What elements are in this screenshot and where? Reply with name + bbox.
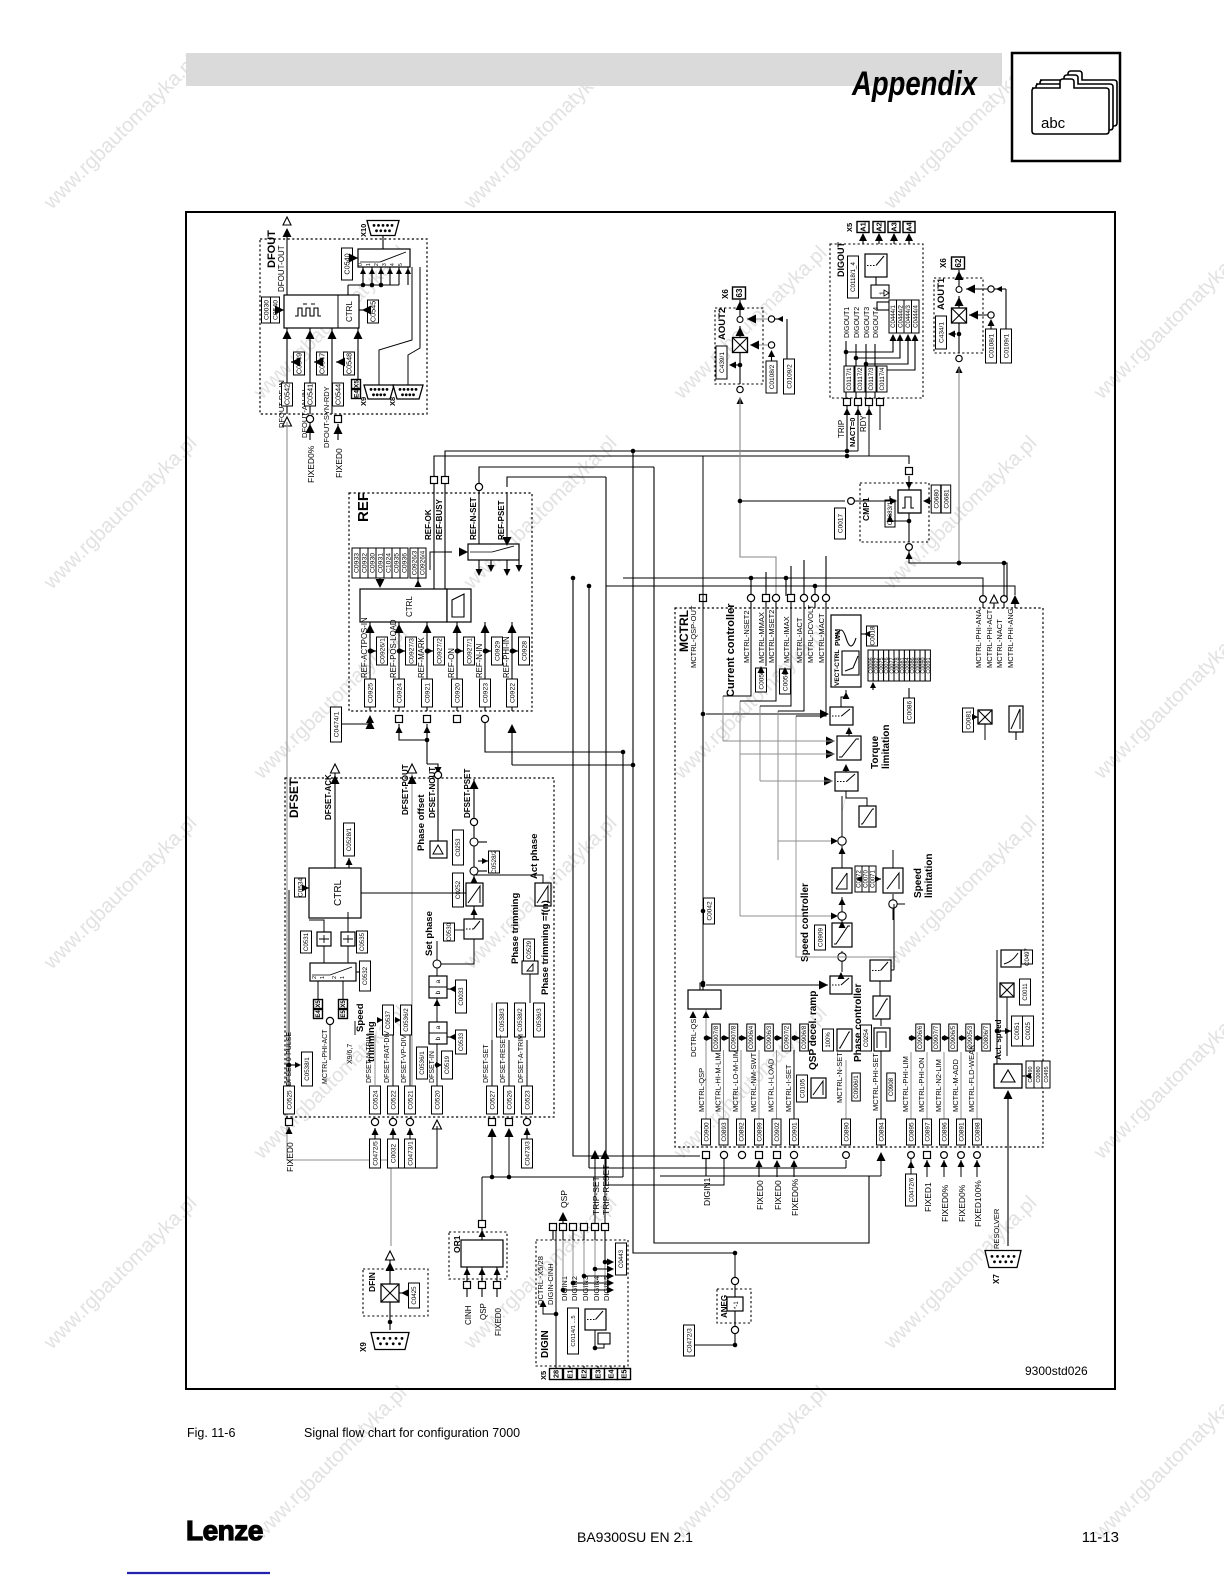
svg-text:C0894: C0894 xyxy=(878,1122,885,1142)
MCTRL act speed triangle xyxy=(994,1061,1050,1088)
svg-text:C0025: C0025 xyxy=(1026,1022,1032,1040)
REF param boxes xyxy=(352,548,426,588)
DFSET mux2 xyxy=(310,961,371,991)
svg-text:63: 63 xyxy=(735,288,744,297)
svg-text:DFSET-RAT-DIV: DFSET-RAT-DIV xyxy=(384,1031,391,1083)
svg-text:C0114/1 ...5: C0114/1 ...5 xyxy=(571,1315,577,1346)
svg-text:MCTRL-QSP-OUT: MCTRL-QSP-OUT xyxy=(689,605,698,668)
svg-text:C0896: C0896 xyxy=(941,1122,948,1142)
label DFSET-VP-DIV xyxy=(401,1034,410,1086)
label TRIP-SET xyxy=(591,1150,602,1223)
svg-text:C0541: C0541 xyxy=(306,384,315,405)
MCTRL limiter3 xyxy=(873,996,890,1026)
svg-text:C0537: C0537 xyxy=(385,1010,392,1029)
svg-text:C0080: C0080 xyxy=(1036,1066,1042,1082)
svg-text:0: 0 xyxy=(358,263,364,266)
svg-text:C0520: C0520 xyxy=(434,1090,441,1110)
svg-text:C0536/1: C0536/1 xyxy=(419,1051,426,1075)
svg-text:C0117/2: C0117/2 xyxy=(857,367,864,390)
svg-text:C0927/2: C0927/2 xyxy=(436,638,443,664)
label Phase controller xyxy=(853,984,864,1062)
svg-text:C0920: C0920 xyxy=(454,683,461,703)
svg-text:MCTRL-N2-LIM: MCTRL-N2-LIM xyxy=(934,1059,943,1112)
svg-text:X9/6,7: X9/6,7 xyxy=(347,1044,354,1064)
svg-text:C0930: C0930 xyxy=(369,553,376,573)
svg-text:CTRL: CTRL xyxy=(333,879,344,906)
footer page number xyxy=(1082,1529,1119,1546)
svg-text:A1: A1 xyxy=(859,222,868,232)
svg-text:MCTRL-PHI-ANG: MCTRL-PHI-ANG xyxy=(1006,608,1015,668)
svg-text:C0680: C0680 xyxy=(933,489,940,509)
MCTRL top stubs xyxy=(749,556,826,596)
svg-text:FIXED0: FIXED0 xyxy=(773,1180,783,1210)
box C0542 xyxy=(282,383,293,406)
box C0528/2 xyxy=(478,850,500,874)
wire REF-PHI-IN feed xyxy=(508,724,636,767)
box C0529 xyxy=(522,939,538,1003)
box C0472/3 xyxy=(684,1325,736,1356)
block REF box xyxy=(349,492,532,711)
REF ramp box xyxy=(447,589,471,622)
svg-text:DFSET-N-TRIM: DFSET-N-TRIM xyxy=(366,1033,373,1083)
svg-text:DFIN: DFIN xyxy=(367,1272,377,1292)
svg-text:C0538/2: C0538/2 xyxy=(517,1008,524,1032)
svg-text:C0536/2: C0536/2 xyxy=(403,1008,410,1032)
svg-text:X5: X5 xyxy=(539,1371,548,1380)
connector X10 xyxy=(359,221,399,238)
svg-text:X10: X10 xyxy=(359,224,368,237)
svg-text:C0906/6: C0906/6 xyxy=(917,1025,924,1049)
svg-text:NACT=0: NACT=0 xyxy=(848,418,857,447)
label MCTRL-QSP-OUT xyxy=(689,456,707,668)
block ANEG xyxy=(717,1251,751,1348)
svg-text:MCTRL-NACT: MCTRL-NACT xyxy=(995,619,1004,668)
wire REF-BUSY xyxy=(435,477,449,590)
svg-text:C0806/7: C0806/7 xyxy=(983,1025,990,1049)
label DFSET-0-PULSE xyxy=(286,890,313,1086)
svg-text:FIXED0%: FIXED0% xyxy=(940,1184,950,1222)
wire AOUT1 down xyxy=(957,368,962,565)
svg-text:C0032: C0032 xyxy=(390,1144,397,1164)
DFSET sum diamonds xyxy=(470,826,487,875)
svg-text:C0901: C0901 xyxy=(791,1122,798,1142)
DFSET CTRL box xyxy=(309,868,361,918)
svg-text:MCTRL-IACT: MCTRL-IACT xyxy=(795,617,804,663)
svg-text:C0033: C0033 xyxy=(458,987,465,1006)
svg-text:DFSET-NOUT: DFSET-NOUT xyxy=(428,767,437,818)
svg-text:C0105: C0105 xyxy=(799,1079,806,1099)
footer blue line xyxy=(127,1572,270,1574)
REF input REF-PHI-IN xyxy=(502,622,530,711)
label RDY xyxy=(859,408,873,432)
wire DFSET-POUT xyxy=(401,764,417,1086)
abc tab icon xyxy=(1012,53,1120,161)
label DFOUT-AN-IN xyxy=(300,352,328,438)
svg-text:DFSET-A-TRIM: DFSET-A-TRIM xyxy=(518,1034,525,1083)
wire REF-PSET xyxy=(497,492,512,546)
svg-text:QSP: QSP xyxy=(559,1190,569,1208)
svg-text:C0927/1: C0927/1 xyxy=(466,638,473,664)
wire X10 to mux xyxy=(382,236,384,249)
block DFIN xyxy=(363,1251,428,1330)
svg-text:C0109/2: C0109/2 xyxy=(786,364,793,389)
label Phase trimming fn xyxy=(540,900,551,995)
box C0536/1 xyxy=(417,1047,428,1079)
svg-text:Lenze: Lenze xyxy=(186,1515,263,1546)
bus line 3 xyxy=(606,477,640,1185)
label MCTRL-I-SET xyxy=(784,1024,808,1148)
svg-text:DFOUT-OUT: DFOUT-OUT xyxy=(277,245,286,292)
svg-text:9300std026: 9300std026 xyxy=(1025,1364,1088,1378)
svg-text:X9: X9 xyxy=(359,397,368,406)
svg-text:BA9300SU EN 2.1: BA9300SU EN 2.1 xyxy=(577,1529,693,1545)
svg-text:C0528/2: C0528/2 xyxy=(491,850,498,874)
svg-text:REF-PSET: REF-PSET xyxy=(497,500,506,540)
label MCTRL-PHI-SET xyxy=(871,1053,895,1148)
svg-text:C0681: C0681 xyxy=(943,489,950,509)
svg-text:C0923: C0923 xyxy=(482,683,489,703)
DFSET x5 terms xyxy=(314,981,348,1019)
svg-text:C0899: C0899 xyxy=(756,1122,763,1142)
DFSET bottom terminals xyxy=(286,1118,531,1129)
svg-text:DFSET-POUT: DFSET-POUT xyxy=(401,764,410,815)
wire dfout long left xyxy=(287,422,391,1246)
svg-text:C0472/6: C0472/6 xyxy=(908,1177,915,1202)
MCTRL param column xyxy=(868,650,932,690)
svg-text:MCTRL-PHI-ACT: MCTRL-PHI-ACT xyxy=(322,1029,329,1084)
svg-text:C0542: C0542 xyxy=(283,384,292,405)
svg-text:C0909: C0909 xyxy=(817,928,824,948)
label DFSET-A-TRIM xyxy=(518,1003,545,1086)
MCTRL top signals xyxy=(742,594,830,663)
svg-text:C0928: C0928 xyxy=(521,641,528,661)
box C0537 xyxy=(377,1005,394,1035)
svg-text:Set phase: Set phase xyxy=(424,911,435,956)
DFOUT bottom terminals xyxy=(283,415,342,426)
MCTRL switch2 xyxy=(760,764,858,791)
svg-text:Speed: Speed xyxy=(355,1003,366,1032)
label Act speed xyxy=(994,950,1003,1064)
svg-text:FIXED0: FIXED0 xyxy=(494,1307,503,1336)
svg-text:QSP decel. ramp: QSP decel. ramp xyxy=(808,991,819,1070)
box C0081b xyxy=(963,708,974,732)
svg-text:5: 5 xyxy=(398,263,404,266)
svg-text:C0892: C0892 xyxy=(738,1122,745,1142)
svg-text:MCTRL-PHI-LIM: MCTRL-PHI-LIM xyxy=(901,1056,910,1112)
label MCTRL-HI-M-LIM xyxy=(714,1024,738,1148)
MCTRL bottom signals right xyxy=(901,1024,990,1148)
svg-text:MCTRL-PHI-ANA: MCTRL-PHI-ANA xyxy=(974,609,983,668)
svg-text:FIXED0: FIXED0 xyxy=(285,1142,295,1172)
bus line 4 xyxy=(621,750,626,1177)
svg-text:X5: X5 xyxy=(341,1000,347,1008)
REF lower junctions xyxy=(396,724,442,774)
DFSET actphase ramp xyxy=(474,875,551,906)
connector X7 resolver xyxy=(985,1251,1021,1285)
svg-text:1: 1 xyxy=(340,976,346,979)
svg-text:C0932: C0932 xyxy=(361,553,368,573)
svg-text:C0927/3: C0927/3 xyxy=(408,638,415,664)
svg-text:C0891: C0891 xyxy=(958,1122,965,1142)
svg-text:QSP: QSP xyxy=(479,1303,488,1320)
svg-text:C0254: C0254 xyxy=(863,1028,870,1047)
MCTRL sum2 xyxy=(889,894,905,920)
svg-text:11-13: 11-13 xyxy=(1082,1529,1119,1546)
box C0472/5 xyxy=(370,1128,381,1168)
svg-text:C0472/3: C0472/3 xyxy=(686,1328,693,1353)
svg-text:a: a xyxy=(435,979,442,983)
MCTRL monitor cross xyxy=(1000,979,1031,1056)
svg-text:C1024: C1024 xyxy=(385,553,392,573)
svg-text:DFSET-RESET: DFSET-RESET xyxy=(500,1034,507,1083)
svg-text:REF-PHI-IN: REF-PHI-IN xyxy=(502,636,511,678)
svg-text:C0118/1_4: C0118/1_4 xyxy=(850,262,857,292)
DFOUT input wires xyxy=(283,328,363,414)
block AOUT2 xyxy=(715,287,795,404)
MCTRL ramp right xyxy=(883,850,903,893)
svg-text:C0907/8: C0907/8 xyxy=(713,1025,720,1049)
svg-text:RDY: RDY xyxy=(859,414,868,432)
DFSET divbox1 xyxy=(429,976,467,1013)
svg-text:C0532: C0532 xyxy=(362,966,369,985)
svg-text:MCTRL-HI-M-LIM: MCTRL-HI-M-LIM xyxy=(714,1052,723,1112)
svg-text:DFSET-SET: DFSET-SET xyxy=(483,1044,490,1083)
svg-text:MCTRL-FLD-WEAK: MCTRL-FLD-WEAK xyxy=(967,1045,976,1112)
svg-text:VECT-CTRL: VECT-CTRL xyxy=(834,650,841,687)
svg-text:MCTRL-M-ADD: MCTRL-M-ADD xyxy=(951,1059,960,1112)
svg-text:CTRL: CTRL xyxy=(405,596,414,617)
MCTRL sum1 xyxy=(778,796,846,860)
REF CTRL box xyxy=(360,589,447,622)
label NACT=0 xyxy=(848,408,862,447)
MCTRL sum3 xyxy=(740,897,846,920)
connector X9 dfin xyxy=(359,1333,409,1353)
svg-text:C0086: C0086 xyxy=(906,701,913,721)
drawing number xyxy=(1025,1364,1088,1378)
box 100pct xyxy=(823,1029,834,1051)
connector X9 dfout xyxy=(359,267,412,406)
svg-text:DIGIN4: DIGIN4 xyxy=(592,1276,601,1301)
svg-text:C0926/1: C0926/1 xyxy=(379,638,386,664)
MCTRL right outputs xyxy=(974,595,1020,668)
box C0909 xyxy=(815,925,826,950)
svg-text:4: 4 xyxy=(390,263,396,266)
svg-text:E3: E3 xyxy=(594,1369,603,1378)
svg-text:CTRL: CTRL xyxy=(345,301,354,322)
block DFSET box xyxy=(285,778,554,1117)
MCTRL switch3 xyxy=(701,972,852,994)
svg-text:1: 1 xyxy=(366,263,372,266)
svg-text:C0544: C0544 xyxy=(334,384,343,405)
svg-text:Fig. 11-6: Fig. 11-6 xyxy=(187,1426,235,1440)
DFSET plusboxes xyxy=(301,912,368,963)
svg-text:C0902: C0902 xyxy=(774,1122,781,1142)
svg-text:C0907/8: C0907/8 xyxy=(731,1025,738,1049)
DFOUT-OUT wire xyxy=(277,217,292,295)
label Phase trimming xyxy=(510,893,521,964)
svg-text:MCTRL-MMAX: MCTRL-MMAX xyxy=(757,612,766,663)
svg-text:C0538/1: C0538/1 xyxy=(304,1057,311,1081)
svg-text:TRIP: TRIP xyxy=(837,420,846,438)
MCTRL pi1 xyxy=(832,846,852,893)
wire DFSET-ACK xyxy=(324,764,340,868)
svg-text:1: 1 xyxy=(879,291,886,295)
box C0018 xyxy=(861,626,878,646)
box C0536/2 xyxy=(395,1005,412,1035)
svg-text:REF-MARK: REF-MARK xyxy=(417,636,426,678)
label DFOUT-DF-IN xyxy=(277,352,305,428)
svg-text:C0108/2: C0108/2 xyxy=(769,364,776,389)
wire AOUT2 down xyxy=(738,398,845,594)
box C0254 xyxy=(861,1025,872,1051)
label MCTRL-NM-SWT xyxy=(749,1024,773,1148)
svg-text:DFSET: DFSET xyxy=(287,778,301,818)
svg-text:DIGIN: DIGIN xyxy=(540,1330,551,1358)
svg-text:C0252: C0252 xyxy=(455,880,462,899)
mux input wires xyxy=(348,267,411,295)
svg-text:MCTRL-PHI-ON: MCTRL-PHI-ON xyxy=(917,1057,926,1112)
svg-text:MCTRL-MACT: MCTRL-MACT xyxy=(817,613,826,663)
label DFSET-RESET xyxy=(500,1003,526,1086)
svg-text:FIXED0: FIXED0 xyxy=(755,1180,765,1210)
label FIXED0 dfout xyxy=(334,424,345,478)
svg-text:Appendix: Appendix xyxy=(851,65,978,103)
svg-text:C0444/4: C0444/4 xyxy=(913,304,919,327)
label Current controller xyxy=(725,603,737,697)
MCTRL bottom terminals right xyxy=(843,1150,983,1227)
svg-text:DIGOUT1: DIGOUT1 xyxy=(844,307,851,338)
svg-text:C0921: C0921 xyxy=(424,683,431,703)
boxes C0030 C0540 xyxy=(262,297,285,323)
svg-text:DIGIN3: DIGIN3 xyxy=(581,1276,590,1301)
MCTRL switch4 xyxy=(870,904,894,996)
svg-text:Signal flow chart for configur: Signal flow chart for configuration 7000 xyxy=(304,1426,520,1440)
svg-text:C0893: C0893 xyxy=(721,1122,728,1142)
MCTRL internal verticals xyxy=(723,602,846,957)
svg-text:DIGOUT3: DIGOUT3 xyxy=(864,307,871,338)
svg-text:DCTRL-QSP: DCTRL-QSP xyxy=(689,1014,698,1057)
svg-text:C0898: C0898 xyxy=(974,1122,981,1142)
svg-text:C0906/8: C0906/8 xyxy=(801,1025,808,1049)
svg-text:C439/1: C439/1 xyxy=(719,352,726,373)
svg-text:DCTRL -X5/28: DCTRL -X5/28 xyxy=(536,1256,545,1305)
svg-text:Act phase: Act phase xyxy=(529,834,540,879)
route phi-ana left xyxy=(623,578,983,596)
svg-text:X7: X7 xyxy=(992,1274,1001,1284)
DIGIN terminals xyxy=(539,1366,631,1380)
label X967 xyxy=(347,1021,355,1064)
box C0042 xyxy=(701,594,715,990)
label Set phase xyxy=(424,911,435,956)
svg-text:REF-OK: REF-OK xyxy=(424,509,433,540)
svg-text:DFSET-VP-DIV: DFSET-VP-DIV xyxy=(401,1034,408,1083)
block AOUT1 xyxy=(934,257,1012,373)
svg-text:C0528/1: C0528/1 xyxy=(346,827,353,851)
MCTRL monitor curve xyxy=(1001,948,1033,968)
svg-text:MCTRL-MSET2: MCTRL-MSET2 xyxy=(767,610,776,663)
svg-text:C0117/3: C0117/3 xyxy=(868,367,875,390)
label FIXED0 dfset xyxy=(285,1127,295,1172)
svg-text:MCTRL-NSET2: MCTRL-NSET2 xyxy=(742,610,751,663)
svg-text:A4: A4 xyxy=(905,221,914,231)
svg-text:FIXED1: FIXED1 xyxy=(923,1182,933,1212)
box C0473/1 xyxy=(405,1128,416,1168)
svg-text:C0522: C0522 xyxy=(390,1090,397,1110)
svg-text:C0908: C0908 xyxy=(888,1077,895,1096)
svg-text:2: 2 xyxy=(312,976,318,979)
MCTRL slope box xyxy=(837,1029,852,1051)
route REF-OK to CMP1 xyxy=(434,454,909,476)
svg-text:limitation: limitation xyxy=(881,725,892,769)
wire dfset-in feed xyxy=(391,1126,437,1168)
svg-text:MCTRL-IMAX: MCTRL-IMAX xyxy=(782,616,791,663)
label QSP decel ramp xyxy=(808,991,819,1070)
svg-text:DIGIN-CINH: DIGIN-CINH xyxy=(546,1263,555,1305)
svg-text:REF-N-IN: REF-N-IN xyxy=(475,644,484,678)
svg-text:C0933: C0933 xyxy=(353,553,360,573)
svg-text:TRIP-RESET: TRIP-RESET xyxy=(601,1164,611,1215)
label DFSET-SET xyxy=(483,1003,508,1086)
wire DFSET-PSET xyxy=(463,769,479,826)
svg-text:C0906/3: C0906/3 xyxy=(766,1025,773,1049)
wire REF-N-SET xyxy=(469,483,483,544)
svg-text:E4: E4 xyxy=(353,390,360,398)
svg-text:FIXED0%: FIXED0% xyxy=(790,1178,800,1216)
REF switch box xyxy=(430,544,519,570)
svg-text:C0253: C0253 xyxy=(455,838,462,857)
svg-text:C0018: C0018 xyxy=(869,626,876,646)
block DFOUT box xyxy=(260,230,427,414)
svg-text:2: 2 xyxy=(332,976,338,979)
MCTRL phi crossbox xyxy=(972,710,992,724)
svg-text:E4: E4 xyxy=(607,1369,616,1379)
label Phase offset xyxy=(416,794,427,851)
svg-text:62: 62 xyxy=(954,258,963,267)
svg-text:MCTRL-DCVOLT: MCTRL-DCVOLT xyxy=(806,604,815,663)
svg-text:MCTRL-QSP: MCTRL-QSP xyxy=(697,1068,706,1112)
svg-text:b: b xyxy=(435,1036,442,1040)
svg-text:AOUT1: AOUT1 xyxy=(936,277,947,310)
svg-text:MCTRL-PHI-ACT: MCTRL-PHI-ACT xyxy=(985,609,994,668)
svg-text:C0525: C0525 xyxy=(286,1090,293,1110)
svg-text:C0495: C0495 xyxy=(1044,1066,1050,1082)
svg-text:C0051: C0051 xyxy=(1015,1021,1021,1039)
svg-text:CINH: CINH xyxy=(464,1305,473,1325)
svg-text:Speed: Speed xyxy=(913,868,924,898)
DFSET divbox2 xyxy=(429,998,467,1086)
REF input REF-POS-LOAD xyxy=(389,619,417,722)
box C0105 xyxy=(797,1075,808,1102)
svg-text:C0922: C0922 xyxy=(509,683,516,703)
route REF-PSET from bus xyxy=(507,477,606,487)
box C0528/1 xyxy=(344,823,355,868)
box C0473/3 xyxy=(522,1128,533,1168)
svg-text:C0473/3: C0473/3 xyxy=(524,1141,531,1166)
box C0474/1 xyxy=(331,707,375,742)
box C0534 xyxy=(295,878,310,898)
svg-text:C0030: C0030 xyxy=(263,300,270,320)
svg-text:Current controller: Current controller xyxy=(725,603,737,697)
svg-text:limitation: limitation xyxy=(924,854,935,898)
svg-text:MCTRL-I-SET: MCTRL-I-SET xyxy=(784,1064,793,1112)
svg-text:Phase trimming: Phase trimming xyxy=(510,893,521,964)
svg-text:C0473/1: C0473/1 xyxy=(407,1141,414,1166)
box C0544 xyxy=(333,383,344,406)
wire MCTRL nset path xyxy=(589,1168,881,1176)
DIGOUT bottom terminals xyxy=(844,399,962,566)
svg-text:C434/1: C434/1 xyxy=(938,322,945,343)
svg-text:Phase offset: Phase offset xyxy=(416,794,427,851)
